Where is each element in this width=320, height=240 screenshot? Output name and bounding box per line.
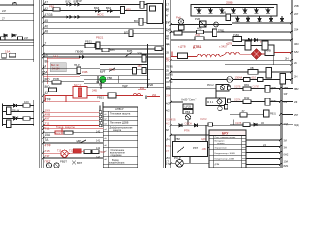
svg-text:47/35: 47/35 <box>45 13 53 17</box>
svg-text:430: 430 <box>126 8 131 12</box>
resistor 430 <box>121 7 132 14</box>
svg-text:РК3.2: РК3.2 <box>207 84 214 87</box>
red wire <box>87 94 143 96</box>
relay 2ПВ <box>137 52 146 63</box>
wire 48 <box>43 30 164 34</box>
red stub 294 <box>138 87 146 90</box>
relay block РК3 <box>206 91 226 106</box>
svg-text:6Л2: 6Л2 <box>294 50 299 54</box>
wire 47 <box>43 1 152 5</box>
svg-text:АПВ-Р: АПВ-Р <box>115 107 124 111</box>
fuse РзК <box>176 16 184 31</box>
wire 45 <box>43 19 164 23</box>
relay МВЗ <box>264 110 277 117</box>
svg-text:ВЗЗ: ВЗЗ <box>94 6 99 10</box>
relay РВБ <box>97 93 116 100</box>
red wire 4ХВ <box>43 112 101 117</box>
svg-text:РВЗ1: РВЗ1 <box>97 96 104 100</box>
svg-text:30Д: 30Д <box>284 122 289 126</box>
svg-text:4ТФ: 4ТФ <box>45 143 52 147</box>
svg-text:О2ПВ: О2ПВ <box>234 86 241 89</box>
svg-text:19А: 19А <box>5 49 10 53</box>
svg-text:ТРВ1: ТРВ1 <box>218 29 225 33</box>
svg-text:РМ: РМ <box>228 78 232 82</box>
relay 2х450 <box>138 65 147 74</box>
relay ЗУ <box>230 110 264 117</box>
relay ВО <box>134 18 143 25</box>
relay РБ1 <box>96 42 100 49</box>
wire 7А <box>43 53 164 57</box>
vertical wire <box>100 80 102 89</box>
svg-text:О2ПЛ: О2ПЛ <box>253 86 260 89</box>
wire <box>273 56 275 65</box>
red wire <box>43 153 61 155</box>
relay <box>1 37 6 40</box>
relay 24В <box>140 1 150 8</box>
diode ПБФВ <box>76 50 86 59</box>
svg-text:РВБ: РВБ <box>107 76 112 80</box>
main middle divider <box>164 0 166 168</box>
relay box <box>225 105 228 110</box>
svg-text:Кн30 "Сигн.": Кн30 "Сигн." <box>182 98 197 102</box>
svg-text:7: 7 <box>45 42 47 46</box>
relay boxes <box>84 150 106 154</box>
svg-text:-08: -08 <box>202 147 206 151</box>
svg-text:ЗВ: ЗВ <box>250 66 254 70</box>
svg-text:4С: 4С <box>166 29 169 32</box>
resistor <box>23 117 30 121</box>
right bus labels bottom <box>284 86 289 168</box>
diode <box>75 15 82 19</box>
svg-text:ГВ-Р: ГВ-Р <box>74 63 80 67</box>
wire 281 <box>165 85 216 89</box>
relay РВФ <box>183 109 193 114</box>
svg-text:ДТВ1: ДТВ1 <box>193 45 202 49</box>
svg-text:Т3Г: Т3Г <box>45 154 51 158</box>
red wire 4ХГ <box>43 117 101 122</box>
svg-text:610: 610 <box>252 76 257 80</box>
red wire heater <box>171 52 291 57</box>
wire МВ1 row <box>227 84 280 92</box>
wire 15А <box>42 70 80 74</box>
svg-text:вкл2: вкл2 <box>56 132 62 135</box>
svg-text:627 У: 627 У <box>74 83 81 87</box>
lamp <box>214 22 219 27</box>
wire diode row <box>230 120 280 127</box>
svg-text:ПБ-Ж: ПБ-Ж <box>12 109 20 113</box>
svg-text:ПДР: ПДР <box>122 84 128 88</box>
svg-text:2К: 2К <box>294 61 297 65</box>
svg-text:4ЛЗ: 4ЛЗ <box>165 156 170 160</box>
svg-text:х ДТВ: х ДТВ <box>178 45 186 49</box>
svg-text:258В: 258В <box>226 1 233 5</box>
wire 460 <box>171 27 292 36</box>
svg-text:254: 254 <box>294 28 299 32</box>
box РЗТ <box>173 142 208 157</box>
diode <box>94 6 102 13</box>
svg-text:460: 460 <box>197 27 202 31</box>
wire <box>225 64 291 66</box>
svg-text:1Т: 1Т <box>166 161 169 164</box>
relay ТРВ1 <box>213 29 226 37</box>
terminal bus <box>42 0 44 168</box>
svg-text:1Т: 1Т <box>166 22 169 25</box>
wire <box>84 79 150 81</box>
svg-text:Т15: Т15 <box>57 150 62 153</box>
wire 8Ю <box>43 77 84 81</box>
svg-text:4Б: 4Б <box>96 80 99 84</box>
terminal column <box>100 95 146 127</box>
svg-text:О2ЮА: О2ЮА <box>185 122 193 125</box>
svg-text:РВФ: РВФ <box>185 111 190 114</box>
diode <box>106 6 114 13</box>
wire 47/35 <box>43 13 120 17</box>
relay СЗГ <box>49 88 57 92</box>
svg-text:2Н: 2Н <box>285 57 289 61</box>
svg-text:ИзВ: ИзВ <box>221 11 226 15</box>
svg-text:25В: 25В <box>294 4 299 8</box>
svg-text:7В7Б: 7В7Б <box>166 65 173 69</box>
middle bus row labels <box>166 8 170 164</box>
diode <box>4 34 7 37</box>
svg-text:БРУ: БРУ <box>222 131 229 135</box>
terminal ticks <box>42 3 293 165</box>
diode <box>14 117 17 120</box>
svg-text:15А: 15А <box>42 70 49 74</box>
svg-text:О2ЛВ: О2ЛВ <box>235 122 242 125</box>
svg-text:730Р: 730Р <box>100 151 106 154</box>
wire МЭ2 row <box>227 97 280 105</box>
svg-text:Т15: Т15 <box>45 149 51 153</box>
switch <box>109 68 115 72</box>
svg-text:16А: 16А <box>53 54 58 58</box>
svg-text:24Б: 24Б <box>92 89 97 93</box>
svg-text:6Л: 6Л <box>166 129 169 132</box>
svg-text:1В: 1В <box>166 77 169 80</box>
svg-text:42: 42 <box>45 91 49 95</box>
thyristor labels <box>196 9 269 11</box>
wire to table <box>171 134 209 136</box>
right bottom bus <box>280 84 282 168</box>
red wire Т11 <box>43 122 101 127</box>
red stub <box>147 96 160 98</box>
red lamp <box>57 150 74 158</box>
wire ЗВ <box>171 66 292 74</box>
fuse РВЗ <box>49 4 60 11</box>
svg-text:ПЕТ: ПЕТ <box>45 160 51 164</box>
relay ЦР2В <box>183 104 193 109</box>
svg-text:4/2: 4/2 <box>166 123 170 126</box>
svg-text:1Т: 1Т <box>166 3 169 7</box>
svg-text:48: 48 <box>45 30 49 34</box>
left panel border <box>40 0 42 168</box>
wire <box>0 4 34 6</box>
bus stub wires <box>282 89 293 125</box>
wire <box>100 64 148 66</box>
svg-text:15А: 15А <box>45 133 52 137</box>
svg-text:3Н: 3Н <box>284 146 287 150</box>
resistor 44 <box>155 42 170 50</box>
left column top labels <box>2 2 18 37</box>
svg-text:141: 141 <box>96 140 101 143</box>
relay box upper <box>207 84 229 91</box>
lamp <box>54 163 59 168</box>
bell ВЗТ <box>72 161 82 166</box>
wire connectors bottom middle <box>175 125 206 163</box>
svg-text:1304А: 1304А <box>235 75 243 79</box>
svg-text:Питление Д2ВВ: Питление Д2ВВ <box>110 122 129 125</box>
motor РО-Р <box>171 156 210 167</box>
svg-text:О2Ю: О2Ю <box>166 118 172 122</box>
svg-text:294: 294 <box>140 87 145 90</box>
red wire 16А <box>47 54 80 58</box>
diode ВЗ <box>74 0 82 6</box>
wire ПДР <box>43 139 103 147</box>
svg-text:ПБФВ: ПБФВ <box>76 50 84 54</box>
svg-text:2Н: 2Н <box>294 75 297 79</box>
svg-text:ЗУ: ЗУ <box>242 110 245 113</box>
wire row <box>171 33 292 44</box>
middle bus <box>170 0 172 168</box>
svg-text:РБ21: РБ21 <box>96 36 104 40</box>
wire 14 <box>43 64 100 68</box>
svg-text:Сост. главных плавк.: Сост. главных плавк. <box>215 137 237 139</box>
svg-text:8Б: 8Б <box>45 60 49 64</box>
svg-text:защита: защита <box>113 129 122 132</box>
wire <box>100 69 164 71</box>
svg-text:100: 100 <box>24 100 29 104</box>
svg-text:ВЗТ: ВЗТ <box>77 161 82 165</box>
relay ЖВУБ <box>133 68 137 75</box>
red filled relay <box>73 149 81 154</box>
svg-text:294: 294 <box>152 94 157 97</box>
wire <box>0 20 34 22</box>
svg-text:47: 47 <box>45 1 49 5</box>
svg-text:24Г: 24Г <box>13 34 18 37</box>
inductor red <box>133 93 141 95</box>
svg-text:РВЗТ: РВЗТ <box>60 160 67 164</box>
svg-text:20Г: 20Г <box>294 12 299 16</box>
svg-text:О2О2: О2О2 <box>200 118 207 121</box>
svg-text:ОЧР: ОЧР <box>76 0 82 3</box>
svg-text:46: 46 <box>45 24 49 28</box>
svg-text:Конденсатор +100В: Конденсатор +100В <box>215 153 236 155</box>
svg-text:О2ПА: О2ПА <box>234 98 241 101</box>
wire <box>0 12 34 14</box>
wire 42 <box>43 7 150 11</box>
contactor box grey <box>50 63 66 72</box>
terminal strip box ТзВ <box>191 1 277 16</box>
wire 2Н <box>171 57 292 61</box>
wire <box>171 24 232 26</box>
lamp <box>185 115 190 120</box>
resistor РБ21 <box>85 40 95 48</box>
middle bus labels <box>166 3 171 113</box>
wire <box>171 101 183 103</box>
svg-text:РзК: РзК <box>176 16 181 20</box>
svg-text:450: 450 <box>138 65 143 68</box>
wire 7 <box>43 42 164 46</box>
svg-text:4/2: 4/2 <box>166 102 170 106</box>
svg-text:РкВ: РкВ <box>148 83 153 87</box>
svg-text:ВУ6: ВУ6 <box>110 48 115 52</box>
box ОВ <box>265 45 274 56</box>
svg-text:Управление: Управление <box>215 147 228 149</box>
block ЗС <box>147 4 163 24</box>
svg-text:Т11: Т11 <box>45 122 50 126</box>
svg-text:4ТФ: 4ТФ <box>45 98 52 102</box>
vertical wire <box>147 44 149 88</box>
right bus labels top <box>294 4 299 79</box>
wire <box>43 128 103 130</box>
svg-text:М 3.1: М 3.1 <box>207 101 214 104</box>
wires from table to bus <box>246 140 280 167</box>
far right pink labels <box>294 88 299 127</box>
diode ВЗ <box>66 0 74 6</box>
red wire 1ХХ <box>43 108 101 113</box>
left column component arc <box>12 3 17 6</box>
svg-text:хДТВ: хДТВ <box>226 43 232 46</box>
svg-text:4Т: 4Т <box>166 150 169 153</box>
svg-text:4/2: 4/2 <box>166 108 170 112</box>
svg-text:РзВ2: РзВ2 <box>233 33 240 37</box>
red vertical <box>61 128 63 134</box>
svg-text:24Г: 24Г <box>2 10 7 13</box>
diamond arrester <box>251 49 262 60</box>
lamp <box>46 163 51 168</box>
wire <box>187 120 189 125</box>
svg-text:0Н2: 0Н2 <box>284 153 289 157</box>
diode <box>14 104 17 107</box>
svg-text:6Т4: 6Т4 <box>166 144 171 148</box>
svg-text:КЭБ: КЭБ <box>82 70 88 74</box>
svg-text:42: 42 <box>45 7 49 11</box>
svg-text:4Б3: 4Б3 <box>294 42 299 46</box>
svg-text:БУБ: БУБ <box>127 49 133 53</box>
svg-text:РЗТ: РЗТ <box>193 146 198 150</box>
diode row 2 <box>232 16 291 23</box>
wire 7А <box>43 138 103 142</box>
svg-text:3И: 3И <box>284 139 287 143</box>
svg-text:45: 45 <box>45 19 49 23</box>
wire РМ row <box>171 68 292 85</box>
svg-text:4Д8: 4Д8 <box>201 138 206 141</box>
svg-text:БУТ: БУТ <box>100 69 106 73</box>
svg-text:МЭ2: МЭ2 <box>244 97 250 100</box>
boxes above <box>226 41 268 50</box>
svg-text:ДЛМ: ДЛМ <box>215 164 220 166</box>
fuse РзВ <box>195 17 206 27</box>
left column vertical feeder bus <box>33 0 35 62</box>
svg-text:ВЗ4: ВЗ4 <box>106 6 111 10</box>
wire Т3Г <box>43 154 103 158</box>
wire <box>80 75 148 77</box>
svg-text:РВ31: РВ31 <box>270 113 277 116</box>
svg-text:10А: 10А <box>284 160 289 164</box>
svg-text:ЗВ2: ЗВ2 <box>294 88 299 91</box>
svg-text:конденсатора: конденсатора <box>109 161 125 164</box>
svg-text:140: 140 <box>96 131 101 134</box>
svg-text:ЦР2В: ЦР2В <box>185 106 192 109</box>
svg-text:РВ1: РВ1 <box>49 4 55 8</box>
svg-text:8И1: 8И1 <box>284 164 289 168</box>
red loop box <box>45 95 100 101</box>
wire <box>0 39 34 41</box>
relay box <box>64 131 73 134</box>
svg-text:РПб: РПб <box>184 129 190 133</box>
svg-text:2В: 2В <box>166 51 169 54</box>
svg-text:8Ю: 8Ю <box>45 77 51 81</box>
svg-text:30Г: 30Г <box>284 92 289 96</box>
svg-text:РкБ1: РкБ1 <box>271 100 277 103</box>
svg-text:2ПВ: 2ПВ <box>137 52 142 56</box>
wire <box>0 42 34 44</box>
fuse КЛГ-У <box>73 83 87 98</box>
switch БУБ <box>126 49 133 57</box>
resistor <box>102 48 115 52</box>
svg-text:ЖОС: ЖОС <box>97 13 104 17</box>
wire <box>0 45 34 47</box>
lamp green ФкБ <box>98 76 119 88</box>
red labels left of table <box>96 131 101 160</box>
svg-text:МВ1: МВ1 <box>244 84 250 87</box>
svg-text:4В: 4В <box>166 37 169 40</box>
right top bus <box>291 0 293 84</box>
svg-text:готовка: готовка <box>217 143 225 145</box>
relay ВП <box>124 30 133 37</box>
svg-text:ДПБ: ДПБ <box>271 87 276 90</box>
svg-text:2Ф: 2Ф <box>294 101 297 104</box>
svg-text:4ХГ: 4ХГ <box>45 117 51 121</box>
svg-text:30Д: 30Д <box>294 124 299 127</box>
svg-text:ВЗ2: ВЗ2 <box>66 0 71 3</box>
svg-text:Конденсатор -100В: Конденсатор -100В <box>215 158 235 160</box>
relay ПБ-Ж <box>7 107 20 115</box>
svg-text:Тепловая защита: Тепловая защита <box>110 113 131 116</box>
svg-text:РзБ: РзБ <box>196 34 201 37</box>
svg-text:РБ21: РБ21 <box>85 40 92 44</box>
svg-text:25В: 25В <box>284 86 289 90</box>
wire <box>95 48 164 50</box>
wire О202 <box>171 118 281 127</box>
svg-text:2Н: 2Н <box>166 60 169 63</box>
svg-text:РзВ: РзВ <box>195 17 200 21</box>
svg-text:РВб: РВб <box>175 137 180 141</box>
svg-text:24Г: 24Г <box>24 37 29 40</box>
svg-text:14: 14 <box>43 64 47 68</box>
svg-text:6Л4: 6Л4 <box>165 138 170 142</box>
svg-text:1Б: 1Б <box>261 122 264 125</box>
wire ПДР <box>87 83 164 88</box>
wire <box>187 114 189 115</box>
resistor 100 <box>23 100 30 107</box>
wire 15А <box>43 133 103 137</box>
red wire <box>68 152 84 154</box>
svg-text:2Б: 2Б <box>166 69 169 72</box>
relay ИзВ <box>221 11 231 21</box>
svg-text:25Г: 25Г <box>284 100 289 104</box>
svg-text:содержан.: содержан. <box>111 154 123 157</box>
svg-text:281: 281 <box>166 87 171 91</box>
relay ЗБ <box>0 53 34 59</box>
thyristor bank top row <box>197 8 270 14</box>
svg-text:ВП: ВП <box>124 30 128 34</box>
relay вкл2 red <box>55 131 64 135</box>
svg-text:ПБ-2: ПБ-2 <box>12 115 19 119</box>
wire <box>208 147 211 149</box>
wire <box>84 83 164 85</box>
relay circle <box>218 106 222 110</box>
